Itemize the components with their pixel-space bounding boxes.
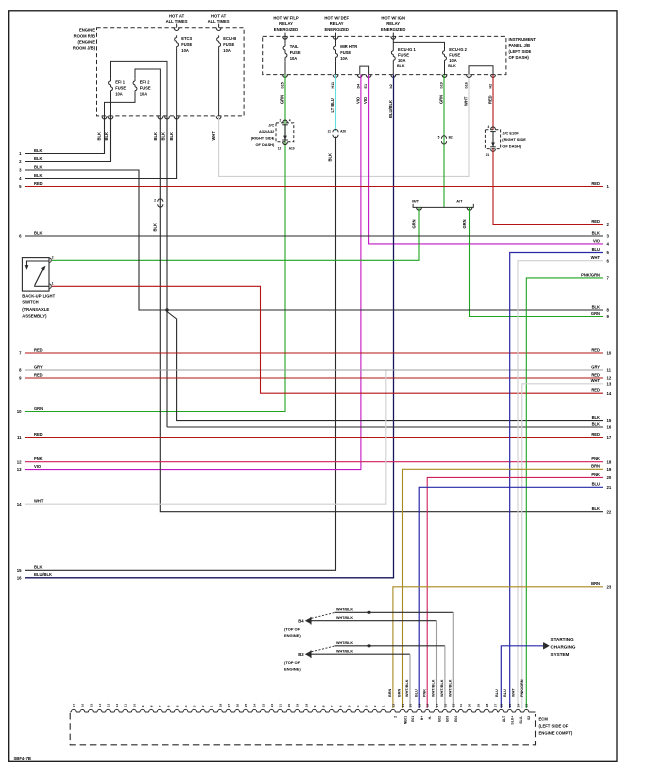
svg-text:25: 25 (244, 703, 248, 707)
svg-text:ECU-B: ECU-B (223, 36, 236, 41)
svg-text:BLK: BLK (592, 230, 600, 235)
svg-text:13: 13 (107, 703, 111, 707)
ground arrow B4 (305, 618, 311, 624)
svg-text:WHT: WHT (34, 499, 44, 504)
J/B bottom bump x469 (467, 75, 472, 78)
wire VIO D4 drop to left pin13 (25, 75, 361, 470)
A/T bump (467, 207, 472, 210)
wire MIR HTR bottom stub (335, 61, 337, 74)
back-up light switch box (22, 258, 49, 292)
wire WHT/BLK B3 lower (311, 653, 410, 655)
svg-text:12: 12 (278, 146, 282, 150)
svg-text:GRY: GRY (591, 364, 600, 369)
svg-text:14: 14 (607, 391, 612, 396)
svg-text:OF DASH): OF DASH) (509, 55, 530, 60)
svg-text:19: 19 (418, 703, 422, 707)
svg-text:2: 2 (154, 199, 156, 203)
wire ECU-IG1 bottom stub (392, 63, 394, 75)
J/B top bump x393.3 (391, 36, 396, 39)
svg-text:WHT: WHT (211, 131, 216, 141)
J/B bottom bump x285 (283, 75, 288, 78)
svg-text:GRN: GRN (412, 219, 417, 228)
wire left pin7 RED to right pin10 (25, 352, 603, 354)
svg-text:ROOM R/B: ROOM R/B (74, 34, 95, 39)
J/C A32 bottom bump (283, 142, 288, 145)
svg-text:H2: H2 (488, 84, 492, 89)
wire PNK/GRN right pin7 to ECM S2 (526, 278, 603, 708)
svg-text:13: 13 (607, 381, 612, 386)
wire VIO E1 drop to right pin4 (369, 75, 603, 244)
svg-text:10: 10 (17, 409, 22, 414)
wire left pin2 BLK (25, 116, 111, 161)
svg-text:BRN: BRN (591, 581, 600, 586)
svg-text:ENERGIZED: ENERGIZED (274, 27, 298, 32)
svg-text:ENERGIZED: ENERGIZED (381, 27, 405, 32)
svg-text:16: 16 (443, 703, 447, 707)
svg-text:BLU/BLK: BLU/BLK (388, 100, 393, 118)
svg-text:BLK: BLK (397, 64, 405, 68)
svg-text:4: 4 (184, 705, 188, 707)
svg-text:10A: 10A (115, 91, 123, 96)
fuse TAIL 10A (284, 44, 286, 46)
svg-text:15: 15 (89, 703, 93, 707)
wire BLU ALT branch (501, 646, 543, 708)
wire left pin11 RED to right pin17 (25, 437, 603, 439)
svg-text:RED: RED (34, 347, 43, 352)
J/B bottom bump x444.5 (442, 75, 447, 78)
svg-text:WHT/BLK: WHT/BLK (336, 641, 353, 645)
svg-text:10A: 10A (140, 91, 148, 96)
svg-text:BLU: BLU (503, 689, 507, 697)
svg-text:9: 9 (141, 705, 145, 707)
J/C E10F dashed box (485, 130, 500, 149)
svg-text:23: 23 (261, 703, 265, 707)
svg-text:FUSE: FUSE (340, 50, 351, 55)
svg-text:FUSE: FUSE (290, 50, 301, 55)
svg-text:2: 2 (201, 705, 205, 707)
svg-text:18: 18 (304, 703, 308, 707)
svg-text:16: 16 (81, 703, 85, 707)
fuse ETCS 10A (176, 35, 178, 37)
svg-text:2: 2 (373, 705, 377, 707)
svg-text:SWITCH: SWITCH (22, 300, 39, 305)
svg-text:ENGINE: ENGINE (79, 28, 95, 33)
instrument panel J/B dashed box (263, 36, 506, 74)
svg-text:22: 22 (607, 509, 612, 514)
svg-text:FUSE: FUSE (140, 85, 151, 90)
svg-text:b16: b16 (464, 82, 468, 88)
svg-text:HOT W/ DEF: HOT W/ DEF (324, 16, 349, 21)
svg-text:27: 27 (494, 703, 498, 707)
svg-text:BLK: BLK (592, 415, 600, 420)
svg-text:SBF4-7B: SBF4-7B (14, 756, 31, 761)
svg-text:5: 5 (438, 136, 440, 140)
svg-text:ECU-IG 2: ECU-IG 2 (449, 47, 467, 52)
svg-text:30: 30 (468, 703, 472, 707)
wire left pin1 BLK (25, 116, 105, 153)
svg-text:ROOM J/B): ROOM J/B) (73, 46, 96, 51)
svg-text:5: 5 (175, 705, 179, 707)
svg-text:26: 26 (236, 703, 240, 707)
fuse EFI 2 10A (134, 79, 136, 81)
J/C A32 top bump (283, 120, 288, 123)
svg-text:12: 12 (607, 376, 612, 381)
svg-text:GRN: GRN (462, 219, 467, 228)
svg-text:10: 10 (607, 351, 612, 356)
svg-text:29: 29 (476, 703, 480, 707)
svg-text:BLK: BLK (34, 164, 42, 169)
wire TAIL top stub (284, 36, 286, 44)
connector 11/A26 (333, 129, 338, 132)
svg-text:WHT: WHT (591, 378, 601, 383)
wire ETCS output (176, 48, 178, 116)
svg-text:GRN: GRN (438, 95, 443, 104)
wire WHT right pin13 to ECM (522, 384, 603, 708)
svg-text:BLU: BLU (592, 247, 600, 252)
svg-text:BLU: BLU (414, 689, 418, 697)
svg-text:RED: RED (591, 388, 600, 393)
ECM box dashed outline (70, 713, 535, 745)
wire left pin14 WHT with riser (25, 371, 386, 505)
svg-text:(ENGINE: (ENGINE (78, 40, 96, 45)
svg-text:RELAY: RELAY (279, 21, 293, 26)
wire EFI2 feed bus (135, 69, 160, 116)
svg-text:(RIGHT SIDE: (RIGHT SIDE (502, 137, 526, 142)
switch arrow down (25, 265, 28, 269)
svg-text:b2: b2 (389, 84, 393, 88)
svg-text:7: 7 (158, 705, 162, 707)
svg-text:BLU/BLK: BLU/BLK (34, 572, 52, 577)
power bump ECU-B (216, 28, 221, 31)
svg-text:4: 4 (356, 705, 360, 707)
svg-text:RELAY: RELAY (386, 21, 400, 26)
svg-text:21: 21 (279, 703, 283, 707)
svg-text:21: 21 (401, 703, 405, 707)
svg-text:10A: 10A (223, 48, 231, 53)
svg-text:FUSE: FUSE (223, 42, 234, 47)
svg-text:1: 1 (52, 281, 54, 285)
svg-text:B3: B3 (298, 652, 304, 657)
svg-text:A32/A32: A32/A32 (259, 129, 275, 134)
svg-text:RED: RED (34, 372, 43, 377)
svg-text:RELAY: RELAY (330, 21, 344, 26)
svg-text:BLK: BLK (34, 156, 42, 161)
svg-text:BLK: BLK (97, 132, 102, 140)
svg-text:WHT/BLK: WHT/BLK (405, 679, 409, 697)
svg-text:BLK: BLK (161, 132, 166, 140)
wire BRN to right pin19 (403, 469, 604, 708)
svg-text:BRN: BRN (388, 689, 392, 697)
svg-text:A26: A26 (340, 129, 346, 133)
svg-text:WHT/BLK: WHT/BLK (336, 616, 353, 620)
J/C E10F internal (492, 131, 494, 147)
svg-text:27: 27 (227, 703, 231, 707)
svg-text:WHT/BLK: WHT/BLK (440, 679, 444, 697)
svg-text:HOT W/ IGN: HOT W/ IGN (381, 16, 405, 21)
svg-text:ALT: ALT (502, 715, 506, 722)
svg-text:6: 6 (339, 705, 343, 707)
wire WHT ECU-B to J/B b16 (219, 75, 469, 177)
svg-text:ENGINE COMPT): ENGINE COMPT) (539, 731, 573, 736)
svg-text:EFI 2: EFI 2 (140, 79, 151, 84)
wire WHT/BLK B3 upper (335, 645, 445, 647)
svg-text:4: 4 (289, 118, 291, 122)
svg-text:HOT AT: HOT AT (211, 14, 227, 19)
svg-text:17: 17 (435, 703, 439, 707)
svg-text:OF DASH): OF DASH) (255, 142, 275, 147)
wire ECU-IG2 bottom stub (444, 63, 446, 75)
svg-text:24: 24 (253, 703, 257, 707)
svg-text:23: 23 (525, 703, 529, 707)
svg-text:PNK: PNK (422, 689, 426, 697)
svg-text:12: 12 (115, 703, 119, 707)
svg-text:B2: B2 (449, 136, 453, 140)
wire TAIL bottom stub (284, 61, 286, 74)
svg-text:10A: 10A (290, 56, 298, 61)
svg-text:J/C: J/C (268, 123, 274, 128)
fuse ECU-B 10A (218, 35, 220, 37)
svg-text:b15: b15 (280, 82, 284, 88)
svg-text:BLU: BLU (495, 689, 499, 697)
wire WHT/BLK B4 lower (311, 620, 437, 622)
svg-text:GRY: GRY (34, 364, 43, 369)
J/B bottom bump x335.5 (333, 75, 338, 78)
svg-text:GRN: GRN (279, 95, 284, 104)
svg-text:19: 19 (296, 703, 300, 707)
J/C E10F top bump (491, 127, 496, 130)
M/T A/T selector bar (413, 204, 473, 208)
svg-text:b19: b19 (439, 82, 443, 88)
wire BRN to right pin23 (393, 587, 603, 708)
svg-text:(TRANSAXLE: (TRANSAXLE (22, 307, 49, 312)
fuse panel bottom bump x218.6 (216, 116, 221, 119)
svg-text:PNK: PNK (34, 456, 43, 461)
J/B bottom bump x359.8 (357, 75, 362, 78)
svg-text:31: 31 (459, 703, 463, 707)
svg-text:(LEFT SIDE OF: (LEFT SIDE OF (539, 724, 569, 729)
svg-text:FUSE: FUSE (449, 53, 460, 58)
svg-text:(LEFT SIDE: (LEFT SIDE (509, 49, 532, 54)
jumper VIO loop (360, 66, 369, 75)
svg-text:ASSEMBLY): ASSEMBLY) (22, 313, 47, 318)
svg-text:FUSE: FUSE (115, 85, 126, 90)
svg-text:RED: RED (591, 181, 600, 186)
ECM connector scalloped edge (70, 709, 535, 712)
svg-text:TAIL: TAIL (290, 44, 299, 49)
switch lever (35, 269, 43, 286)
svg-text:10A: 10A (181, 48, 189, 53)
switch pin1 bump (49, 284, 51, 289)
svg-text:BLK: BLK (152, 223, 157, 231)
svg-text:12: 12 (17, 459, 22, 464)
svg-text:E03: E03 (446, 716, 450, 722)
svg-text:1: 1 (382, 705, 386, 707)
connector 5/B2 (441, 136, 446, 139)
svg-text:GRN: GRN (34, 406, 43, 411)
svg-text:20: 20 (287, 703, 291, 707)
wire left pin3 BLK to right pin8 (25, 170, 603, 310)
svg-text:E01: E01 (411, 716, 415, 722)
svg-text:14: 14 (17, 502, 22, 507)
svg-text:RED: RED (591, 219, 600, 224)
wire left pin4 BLK (25, 116, 177, 178)
wire BLK2 with connector to right pin22 (160, 116, 603, 512)
wire MIR HTR top stub (335, 36, 337, 44)
wire BLU to right pin21 (419, 487, 603, 708)
svg-text:VIO: VIO (593, 238, 601, 243)
svg-text:STARTING: STARTING (551, 637, 575, 642)
svg-text:E04: E04 (454, 716, 458, 722)
svg-text:16: 16 (17, 575, 22, 580)
svg-text:28: 28 (485, 703, 489, 707)
svg-text:PANEL J/B: PANEL J/B (509, 43, 531, 48)
svg-text:BLK: BLK (592, 421, 600, 426)
svg-text:18: 18 (426, 703, 430, 707)
svg-text:BRN: BRN (398, 689, 402, 697)
wire left pin6 BLK to right pin3 (25, 235, 603, 237)
svg-text:E1: E1 (364, 84, 368, 89)
svg-text:WHT/BLK: WHT/BLK (336, 608, 353, 612)
svg-text:BLK: BLK (448, 64, 456, 68)
svg-text:PNK: PNK (591, 472, 600, 477)
junction dot (165, 308, 168, 311)
svg-text:20: 20 (408, 703, 412, 707)
svg-text:A/T: A/T (456, 199, 463, 204)
junction dot B4 (367, 611, 370, 614)
svg-text:21: 21 (486, 153, 490, 157)
svg-text:H-: H- (428, 716, 432, 720)
wire WHT right pin6 to ECM SLU- (518, 261, 603, 708)
svg-text:BRN: BRN (591, 464, 600, 469)
svg-text:H11: H11 (331, 82, 335, 89)
svg-text:RED: RED (591, 432, 600, 437)
wire GRN M/T to backup switch (52, 207, 419, 260)
svg-text:PNK: PNK (591, 456, 600, 461)
wire B4 upper dashed link (312, 613, 335, 619)
wire GRN A/T to right pin9 (470, 207, 604, 316)
M/T bump (417, 207, 422, 210)
svg-text:BLK: BLK (328, 153, 333, 161)
svg-text:24: 24 (516, 703, 520, 707)
switch contact from pin2 (27, 261, 49, 265)
wire x167 to right pin16 (167, 426, 603, 428)
svg-text:11: 11 (124, 704, 128, 708)
svg-text:16: 16 (607, 425, 612, 430)
J/B bottom bump x493 (491, 75, 496, 78)
svg-text:B4: B4 (298, 619, 304, 624)
svg-text:BLK: BLK (34, 230, 42, 235)
svg-text:3: 3 (365, 705, 369, 707)
svg-text:WHT: WHT (591, 255, 601, 260)
svg-text:BLK: BLK (592, 506, 600, 511)
svg-text:26: 26 (500, 703, 504, 707)
svg-text:BLK: BLK (153, 132, 158, 140)
wire GRN b19 drop (443, 75, 445, 208)
svg-text:11: 11 (607, 368, 612, 373)
starting system arrow (543, 642, 545, 649)
svg-text:5: 5 (347, 705, 351, 707)
wire RED H2 drop (492, 75, 494, 130)
svg-text:A19: A19 (289, 146, 295, 150)
svg-text:E02: E02 (437, 716, 441, 722)
svg-text:PNK/GRN: PNK/GRN (581, 272, 600, 277)
J/B bottom bump x368.6 (366, 75, 371, 78)
wire ECU-B output (218, 48, 220, 116)
svg-text:2: 2 (280, 118, 282, 122)
svg-text:PNK/GRN: PNK/GRN (520, 679, 524, 697)
svg-text:WHT: WHT (512, 688, 516, 697)
svg-text:10A: 10A (398, 58, 406, 63)
wire EFI2 output jog (105, 93, 136, 116)
power bump ETCS (174, 28, 179, 31)
svg-text:23: 23 (607, 584, 612, 589)
wire left pin5 RED to right pin1 (25, 186, 603, 188)
svg-text:8: 8 (322, 705, 326, 707)
J/C A32 dashed box (276, 123, 294, 142)
fuse panel bottom bump x167 (165, 116, 170, 119)
J/B top bump x335.5 (333, 36, 338, 39)
svg-text:14: 14 (98, 703, 102, 707)
svg-text:RED: RED (34, 432, 43, 437)
wire ECU-IG1 top stub (392, 36, 394, 48)
svg-text:13: 13 (17, 467, 22, 472)
svg-text:OF DASH): OF DASH) (502, 143, 522, 148)
svg-text:28: 28 (218, 703, 222, 707)
svg-text:8: 8 (150, 705, 154, 707)
ground arrow B3 (305, 651, 311, 657)
wire B3 upper dashed link (312, 646, 335, 652)
svg-text:10A: 10A (449, 58, 457, 63)
svg-text:BACK-UP LIGHT: BACK-UP LIGHT (22, 293, 55, 298)
svg-text:15: 15 (452, 703, 456, 707)
svg-text:VIO: VIO (34, 464, 42, 469)
svg-text:RED: RED (591, 372, 600, 377)
wire PNK to right pin20 (427, 477, 603, 708)
fuse MIR HTR 10A (335, 44, 337, 46)
svg-text:SLU+: SLU+ (511, 716, 515, 725)
svg-text:(RIGHT SIDE: (RIGHT SIDE (251, 135, 275, 140)
svg-text:RED: RED (487, 95, 492, 104)
junction dot B3 (367, 644, 370, 647)
svg-text:SLU-: SLU- (519, 716, 523, 724)
svg-text:WHT: WHT (463, 96, 468, 106)
svg-text:ALL TIMES: ALL TIMES (166, 19, 188, 24)
fuse panel bottom bump x160.4 (158, 116, 163, 119)
svg-text:SYSTEM: SYSTEM (551, 652, 570, 657)
svg-text:ECU-IG 1: ECU-IG 1 (398, 47, 416, 52)
svg-text:VIO: VIO (363, 96, 368, 104)
svg-text:1: 1 (210, 705, 214, 707)
svg-text:CHARGING: CHARGING (551, 645, 576, 650)
engine room R/B dashed box (97, 28, 245, 116)
svg-text:RED: RED (591, 347, 600, 352)
wire BLU/BLK b2 drop to left pin16 (25, 75, 394, 578)
svg-text:10: 10 (132, 703, 136, 707)
svg-text:3: 3 (193, 705, 197, 707)
svg-text:HOT W/ F/LP: HOT W/ F/LP (273, 16, 299, 21)
svg-text:22: 22 (391, 703, 395, 707)
svg-text:ETCS: ETCS (181, 36, 192, 41)
switch pin2 bump (49, 258, 51, 263)
svg-text:17: 17 (607, 435, 612, 440)
svg-text:18: 18 (607, 459, 612, 464)
svg-text:M/T: M/T (412, 199, 419, 204)
fuse ECU-IG1 10A (392, 49, 394, 51)
wire left pin9 RED to right pin12 (25, 377, 603, 379)
svg-text:15: 15 (607, 418, 612, 423)
connector 2 on BLK wire (158, 199, 163, 202)
wire switch RED to right pin14 (52, 286, 603, 393)
